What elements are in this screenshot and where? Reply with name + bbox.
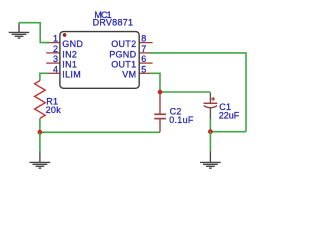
- svg-text:1: 1: [53, 34, 58, 44]
- pin 6 stub: [139, 62, 153, 64]
- IC MC1 pin-1 marker dot: [63, 33, 67, 37]
- wire R1 bottom to junction: [39, 118, 41, 132]
- svg-text:IN1: IN1: [62, 59, 77, 69]
- svg-text:7: 7: [141, 44, 146, 54]
- svg-text:IN2: IN2: [62, 49, 77, 59]
- junction dot at R1 / ground: [38, 130, 43, 135]
- pin 2 stub: [46, 52, 60, 54]
- capacitor C1 top plate: [204, 102, 218, 104]
- capacitor C2 top lead: [159, 92, 161, 114]
- svg-text:0.1uF: 0.1uF: [169, 115, 194, 125]
- ground symbol below C1: [200, 152, 221, 169]
- capacitor C2 bottom lead: [159, 119, 161, 132]
- svg-text:PGND: PGND: [109, 49, 136, 59]
- IC MC1 body: [60, 32, 139, 89]
- svg-text:8: 8: [141, 34, 146, 44]
- wire bottom-left rail (R1 junction to C2): [40, 131, 160, 133]
- svg-text:20k: 20k: [46, 105, 62, 115]
- wire VM: pin 5 to top rail: [150, 73, 160, 92]
- pin 7 stub: [139, 52, 153, 54]
- ground symbol top-left: [9, 23, 30, 38]
- svg-text:22uF: 22uF: [219, 111, 240, 121]
- wire PGND: pin 7 right and down: [150, 53, 246, 132]
- pin 1 stub: [46, 42, 60, 44]
- wire R1 junction down to ground: [39, 132, 41, 151]
- pin 3 stub: [46, 62, 60, 64]
- capacitor C1 bottom plate arc: [204, 106, 217, 108]
- wire bottom-right rail (junction to pin 7 riser): [210, 131, 246, 133]
- svg-text:OUT2: OUT2: [111, 39, 136, 49]
- svg-text:5: 5: [141, 64, 146, 74]
- junction dot C1 / ground: [208, 129, 213, 134]
- wire C1 junction down to ground: [209, 132, 211, 152]
- svg-text:4: 4: [53, 64, 58, 74]
- svg-text:VM: VM: [122, 70, 136, 80]
- pin 5 stub: [139, 72, 153, 74]
- capacitor C1 bottom lead: [209, 108, 211, 119]
- wire VM top rail to C1: [160, 91, 210, 93]
- svg-text:3: 3: [53, 54, 58, 64]
- pin 4 stub: [46, 72, 60, 74]
- svg-text:GND: GND: [62, 39, 83, 49]
- resistor R1 zigzag: [35, 81, 46, 119]
- svg-text:OUT1: OUT1: [111, 59, 136, 69]
- svg-text:6: 6: [141, 54, 146, 64]
- wire C1 bottom to junction: [209, 119, 211, 132]
- wire GND net: ground to pin 1: [19, 23, 50, 43]
- pin 8 stub: [139, 42, 153, 44]
- svg-text:DRV8871: DRV8871: [93, 18, 134, 28]
- capacitor C2 plates: [154, 113, 166, 115]
- ground symbol below R1: [30, 152, 51, 169]
- capacitor C1 top lead: [209, 93, 211, 103]
- junction dot VM / C2: [158, 90, 163, 95]
- svg-text:2: 2: [53, 44, 58, 54]
- svg-text:ILIM: ILIM: [62, 70, 81, 80]
- wire ILIM: pin 4 to R1: [40, 73, 49, 81]
- capacitor C1 plus sign: [211, 97, 215, 101]
